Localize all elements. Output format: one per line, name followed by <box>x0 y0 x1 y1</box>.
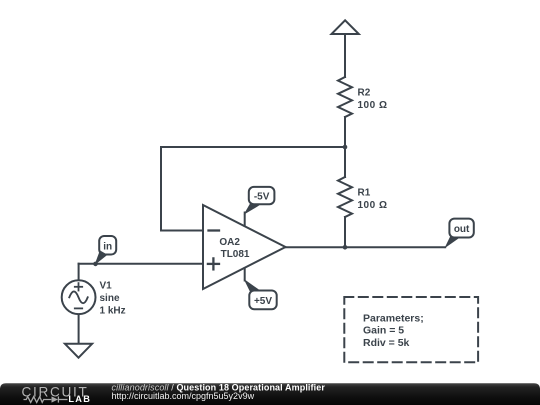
svg-text:100 Ω: 100 Ω <box>358 100 388 111</box>
svg-text:R1: R1 <box>358 188 371 199</box>
wire V1 to ground <box>78 314 80 344</box>
+5V pin stub <box>244 268 246 281</box>
net label box +5V <box>249 291 276 310</box>
wire feedback horizontal <box>161 146 345 148</box>
svg-text:Parameters;: Parameters; <box>363 312 424 324</box>
wire in corner to V1 <box>78 264 80 281</box>
node junction at R2/R1 feedback <box>343 145 348 150</box>
V1 plus polarity mark <box>75 283 82 290</box>
footer credit line <box>112 382 326 392</box>
flag connector out <box>444 236 458 248</box>
voltage source V1 circle <box>62 280 96 314</box>
net label text -5V <box>254 191 270 202</box>
parameters text line 2 <box>363 325 404 337</box>
parameters text line 1 <box>363 312 424 324</box>
svg-text:http://circuitlab.com/cpgfn5u5: http://circuitlab.com/cpgfn5u5y2v9w <box>112 391 255 401</box>
net label text in <box>103 241 112 252</box>
label OA2 <box>219 237 240 248</box>
label R2 <box>358 88 371 99</box>
power supply VCC arrow <box>332 20 359 34</box>
svg-text:1 kHz: 1 kHz <box>100 306 126 317</box>
parameters text line 3 <box>363 337 410 349</box>
svg-text:V1: V1 <box>100 281 113 292</box>
wire feedback to inverting input <box>161 230 203 232</box>
net label box -5V <box>249 187 275 204</box>
V1 minus polarity mark <box>75 307 82 309</box>
svg-text:Gain = 5: Gain = 5 <box>363 325 404 337</box>
flag connector in <box>94 250 107 265</box>
svg-text:LAB: LAB <box>68 394 91 404</box>
net label box in <box>99 236 116 255</box>
svg-text:sine: sine <box>100 293 120 304</box>
svg-text:R2: R2 <box>358 88 371 99</box>
resistor R1 <box>338 177 352 217</box>
net label text out <box>454 224 470 235</box>
label R1 <box>358 188 371 199</box>
flag connector -5V <box>244 204 260 215</box>
svg-text:in: in <box>103 241 112 252</box>
parameters dashed box <box>344 297 478 362</box>
op-amp non-inverting input plus sign <box>208 258 219 269</box>
value label TL081 <box>221 249 250 260</box>
wire op-amp output <box>286 246 446 248</box>
svg-text:OA2: OA2 <box>219 237 240 248</box>
label V1 <box>100 281 113 292</box>
svg-text:out: out <box>454 224 470 235</box>
wire R1 to output node <box>344 217 346 247</box>
footer url line <box>112 391 255 401</box>
wire R2 to R1 <box>344 117 346 177</box>
value label R1 100 ohm <box>358 200 388 211</box>
ground symbol <box>65 344 92 358</box>
value label R2 100 ohm <box>358 100 388 111</box>
net label text +5V <box>254 296 272 307</box>
svg-text:TL081: TL081 <box>221 249 250 260</box>
value label 1 kHz <box>100 306 126 317</box>
svg-text:100 Ω: 100 Ω <box>358 200 388 211</box>
node junction at in <box>93 262 98 267</box>
wire non-inverting input <box>79 263 203 265</box>
flag connector +5V <box>244 279 260 292</box>
CircuitLab logo text LAB <box>68 394 91 404</box>
-5V pin stub <box>244 213 246 227</box>
op-amp U1 OA2 triangle <box>203 205 286 289</box>
svg-text:Rdiv = 5k: Rdiv = 5k <box>363 337 410 349</box>
svg-text:+5V: +5V <box>254 296 272 307</box>
op-amp inverting input minus sign <box>209 229 220 231</box>
value label sine <box>100 293 120 304</box>
svg-text:-5V: -5V <box>254 191 270 202</box>
V1 sine symbol <box>69 291 87 303</box>
footer bar <box>0 383 540 405</box>
resistor R2 <box>338 77 352 117</box>
wire VCC to R2 <box>344 34 346 77</box>
net label box out <box>449 219 473 238</box>
node junction at output <box>343 245 348 250</box>
wire feedback vertical <box>160 147 162 231</box>
CircuitLab logo resistor-diode symbol <box>24 396 68 402</box>
CircuitLab logo text CIRCUIT <box>22 384 89 399</box>
